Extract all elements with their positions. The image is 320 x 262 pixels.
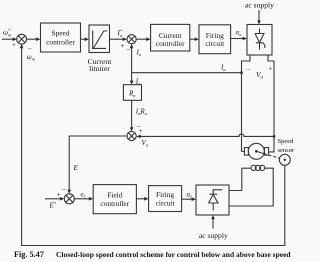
current limiter — [88, 25, 113, 73]
speed sensor — [278, 138, 295, 166]
wire field rectifier top output to coil — [229, 168, 251, 190]
wire Va sense line with hop — [136, 127, 274, 147]
svg-text:controller: controller — [156, 39, 185, 48]
block speed controller — [41, 23, 81, 52]
wire Ia up to SJ2 — [130, 44, 142, 73]
svg-text:+: + — [57, 191, 61, 199]
svg-text:circuit: circuit — [205, 39, 225, 48]
wire converter positive terminal down right side — [268, 55, 274, 152]
node Ia junction on left armature wire — [240, 71, 243, 74]
ac supply bottom — [199, 215, 228, 240]
wire coil to field rectifier bottom output — [229, 168, 273, 206]
svg-text:E: E — [73, 164, 79, 172]
wire current controller to firing circuit — [190, 37, 199, 41]
wire converter negative terminal to motor left brush — [242, 55, 264, 151]
block firing circuit field — [149, 186, 182, 212]
wire firing circuit to field rectifier, label alpha-f — [182, 191, 196, 202]
svg-text:Fig. 5.47: Fig. 5.47 — [14, 250, 44, 259]
svg-text:−: − — [62, 186, 66, 194]
svg-text:+: + — [269, 65, 273, 73]
svg-text:controller: controller — [100, 199, 129, 208]
caption Fig. 5.47 — [14, 250, 291, 259]
summing junction SJ3 — [64, 194, 74, 204]
wire IaRa from Ra to SJ4 — [130, 100, 148, 131]
wire Ia down to resistor Ra — [130, 73, 141, 86]
summing junction SJ4 emf computation — [127, 131, 136, 140]
converter U1 armature thyristor bridge — [247, 25, 272, 56]
wire speed controller to current limiter — [81, 37, 90, 41]
block field controller — [93, 185, 136, 214]
svg-text:+: + — [121, 42, 125, 50]
wire ef SJ3 to field controller — [74, 190, 93, 200]
block current controller — [151, 24, 190, 51]
svg-text:ac supply: ac supply — [245, 1, 274, 10]
svg-text:+: + — [139, 127, 143, 135]
ac supply top — [245, 1, 274, 25]
wire firing circuit to converter, label alpha-a — [231, 29, 247, 41]
converter U2 field rectifier — [196, 185, 229, 215]
motor M armature — [244, 143, 268, 159]
wire speed feedback to SJ1 — [20, 44, 285, 246]
inductor field winding — [251, 165, 265, 170]
svg-text:Speed: Speed — [51, 29, 69, 38]
svg-text:ac supply: ac supply — [199, 231, 228, 240]
wire E from SJ4 to SJ3 — [62, 136, 127, 194]
node speed reference input — [2, 28, 17, 49]
svg-text:controller: controller — [46, 38, 75, 47]
node E* reference input — [45, 191, 64, 210]
svg-text:Closed-loop speed control sche: Closed-loop speed control scheme for con… — [56, 250, 291, 259]
svg-text:sensor: sensor — [278, 147, 295, 154]
svg-text:limiter: limiter — [89, 64, 110, 73]
resistor Ra — [123, 85, 141, 101]
wire SJ1 to speed controller — [26, 37, 40, 41]
wire current limiter to SJ2, node Ia* — [110, 29, 131, 54]
svg-text:circuit: circuit — [156, 198, 176, 207]
svg-text:+: + — [12, 41, 16, 49]
svg-text:−: − — [247, 66, 251, 74]
node Va junction on right armature wire — [273, 135, 276, 138]
svg-text:Speed: Speed — [278, 138, 295, 145]
svg-text:−: − — [28, 45, 32, 53]
wire Ia feedback horizontal — [132, 64, 242, 73]
svg-text:Field: Field — [107, 190, 122, 199]
svg-text:−: − — [126, 46, 130, 54]
summing junction SJ2 — [127, 35, 136, 44]
wire SJ2 to current controller — [136, 37, 150, 41]
wire dashed link motor to speed sensor — [264, 154, 280, 159]
wire field controller to firing circuit field — [136, 197, 148, 201]
block firing circuit armature — [199, 25, 231, 54]
summing junction SJ1 — [17, 34, 27, 44]
